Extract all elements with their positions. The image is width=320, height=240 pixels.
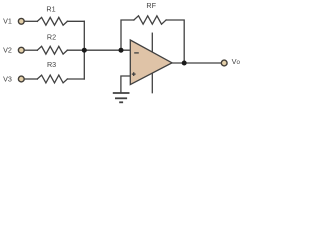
ground [113, 93, 130, 102]
wire op-amp output [172, 62, 221, 64]
svg-text:R3: R3 [47, 60, 56, 69]
terminal V1 [18, 18, 24, 24]
wire V2 to R2 [25, 49, 38, 51]
wire feedback left riser [121, 20, 134, 50]
svg-text:V2: V2 [3, 46, 12, 55]
terminal Vo [221, 60, 227, 66]
wire op-amp bottom power pin [151, 73, 153, 93]
svg-text:Vo: Vo [232, 57, 241, 66]
wire summing bus vertical [83, 21, 85, 79]
wire node to op-amp inverting input [84, 49, 130, 51]
svg-text:V1: V1 [3, 17, 12, 26]
node feedback tap [119, 48, 124, 53]
svg-text:R2: R2 [47, 32, 56, 41]
svg-text:RF: RF [146, 1, 156, 10]
wire V1 to R1 [25, 20, 38, 22]
resistor R3 [37, 75, 67, 83]
wire V3 to R3 [25, 78, 38, 80]
svg-text:V3: V3 [3, 74, 12, 83]
node output junction [182, 61, 187, 66]
wire op-amp top power pin [151, 33, 153, 56]
resistor RF [134, 16, 166, 24]
wire R2 to bus [67, 49, 84, 51]
wire feedback right riser [166, 20, 184, 63]
wire non-inverting input [121, 76, 131, 93]
node summing junction [82, 48, 87, 53]
terminal V3 [18, 76, 24, 82]
op-amp U1 [130, 40, 172, 85]
terminal V2 [18, 47, 24, 53]
resistor R1 [37, 17, 67, 25]
svg-text:R1: R1 [46, 5, 55, 14]
wire R3 to bus [67, 78, 84, 80]
wire R1 to bus [67, 20, 84, 22]
resistor R2 [37, 46, 67, 54]
